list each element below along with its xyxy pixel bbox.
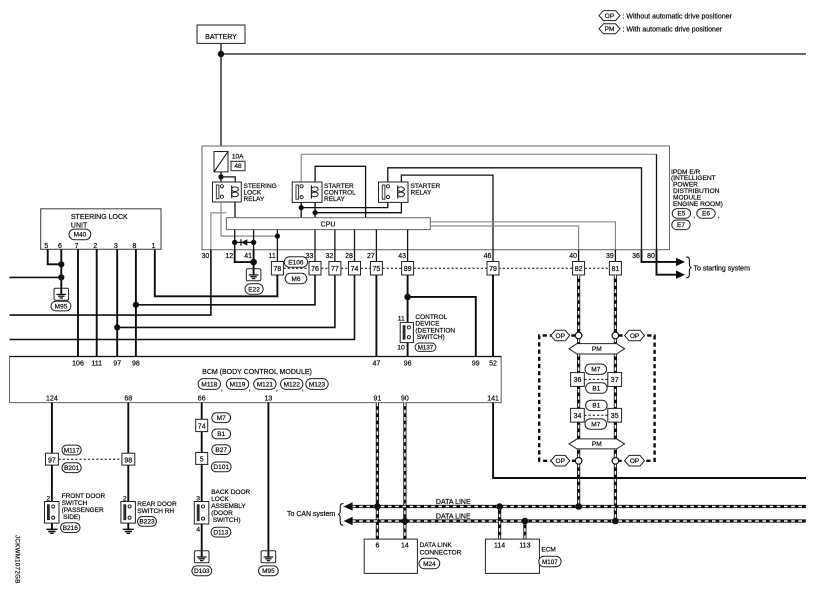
svg-text:D101: D101 <box>213 464 229 471</box>
svg-text:14: 14 <box>401 543 409 550</box>
svg-text:OP: OP <box>556 333 565 340</box>
svg-text:36: 36 <box>632 253 640 260</box>
svg-text:66: 66 <box>198 395 206 402</box>
svg-text:M122: M122 <box>284 381 301 388</box>
svg-text:M95: M95 <box>55 303 68 310</box>
svg-text:96: 96 <box>404 360 412 367</box>
svg-text:2: 2 <box>93 243 97 250</box>
svg-text:106: 106 <box>72 360 84 367</box>
svg-text:OP: OP <box>605 13 614 20</box>
svg-text:4: 4 <box>196 526 200 533</box>
svg-text:B201: B201 <box>64 465 80 472</box>
svg-text:M40: M40 <box>74 232 87 239</box>
svg-text:11: 11 <box>398 315 405 322</box>
svg-text:43: 43 <box>398 253 406 260</box>
svg-text:68: 68 <box>124 395 132 402</box>
svg-text:B1: B1 <box>592 385 600 392</box>
svg-text:M118: M118 <box>201 381 217 388</box>
svg-text:99: 99 <box>472 360 480 367</box>
svg-text:46: 46 <box>484 253 492 260</box>
svg-text:47: 47 <box>373 360 381 367</box>
svg-text:35: 35 <box>611 413 619 420</box>
svg-text:36: 36 <box>574 377 582 384</box>
svg-text:,: , <box>302 386 304 393</box>
svg-text:124: 124 <box>46 395 58 402</box>
svg-text:PM: PM <box>605 26 615 33</box>
svg-text:OP: OP <box>556 458 565 465</box>
svg-text:113: 113 <box>519 543 530 550</box>
svg-text:To starting system: To starting system <box>694 265 751 272</box>
svg-text:M121: M121 <box>257 381 274 388</box>
svg-text:E5: E5 <box>677 211 685 218</box>
svg-text:E106: E106 <box>288 259 304 266</box>
svg-text:74: 74 <box>351 266 359 273</box>
svg-text:STEERING LOCK: STEERING LOCK <box>71 214 128 221</box>
svg-text:REAR DOOR: REAR DOOR <box>137 501 177 508</box>
svg-text:B223: B223 <box>139 519 155 526</box>
svg-text:27: 27 <box>367 253 375 260</box>
svg-text:5: 5 <box>44 243 48 250</box>
svg-text:77: 77 <box>331 266 339 273</box>
svg-text:: Without automatic drive posi: : Without automatic drive positioner <box>623 13 733 20</box>
svg-text:32: 32 <box>326 253 334 260</box>
svg-text:ASSEMBLY: ASSEMBLY <box>211 503 246 510</box>
svg-text:80: 80 <box>647 253 655 260</box>
svg-text:M7: M7 <box>591 421 600 428</box>
svg-text:B1: B1 <box>217 431 225 438</box>
svg-text:6: 6 <box>58 243 62 250</box>
svg-text:LOCK: LOCK <box>211 496 229 503</box>
svg-text:97: 97 <box>48 457 56 464</box>
svg-text:3: 3 <box>196 495 200 502</box>
svg-text:,: , <box>718 213 720 220</box>
svg-text:75: 75 <box>373 266 381 273</box>
svg-text:30: 30 <box>202 253 210 260</box>
svg-text:SIDE): SIDE) <box>63 514 80 521</box>
svg-text:2: 2 <box>46 495 50 502</box>
svg-text:SWITCH): SWITCH) <box>213 517 241 524</box>
svg-text:ECM: ECM <box>541 547 555 554</box>
svg-text:RELAY: RELAY <box>411 190 432 197</box>
svg-text:M123: M123 <box>309 381 326 388</box>
svg-text:CPU: CPU <box>321 221 336 228</box>
svg-text:98: 98 <box>124 457 132 464</box>
svg-text:39: 39 <box>606 253 614 260</box>
svg-text:PM: PM <box>592 346 602 353</box>
svg-text:111: 111 <box>91 360 102 367</box>
svg-text:E7: E7 <box>677 222 685 229</box>
svg-text:M107: M107 <box>542 559 558 566</box>
svg-text:RELAY: RELAY <box>244 196 265 203</box>
svg-text:To CAN system: To CAN system <box>287 511 335 518</box>
svg-text:JCKWM1072GB: JCKWM1072GB <box>13 535 20 584</box>
svg-text:1: 1 <box>151 243 155 250</box>
svg-text:DATA LINK: DATA LINK <box>420 542 453 549</box>
svg-text:98: 98 <box>132 360 140 367</box>
svg-text:BCM (BODY CONTROL MODULE): BCM (BODY CONTROL MODULE) <box>202 369 312 376</box>
svg-text:M119: M119 <box>230 381 246 388</box>
svg-text:81: 81 <box>612 266 620 273</box>
svg-text:141: 141 <box>487 395 499 402</box>
svg-text:E6: E6 <box>702 211 710 218</box>
svg-text:7: 7 <box>75 243 79 250</box>
svg-text:74: 74 <box>198 424 206 431</box>
svg-text:SWITCH RH: SWITCH RH <box>137 508 174 515</box>
svg-text:FRONT DOOR: FRONT DOOR <box>62 493 106 500</box>
svg-text:6: 6 <box>375 543 379 550</box>
svg-text:(PASSENGER: (PASSENGER <box>62 507 104 514</box>
svg-text:89: 89 <box>404 266 412 273</box>
svg-text:2: 2 <box>123 495 127 502</box>
svg-text:DATA LINE: DATA LINE <box>436 499 471 506</box>
svg-text:BATTERY: BATTERY <box>205 34 237 41</box>
svg-text:: With automatic drive positio: : With automatic drive positioner <box>623 27 723 34</box>
svg-text:BACK DOOR: BACK DOOR <box>211 489 250 496</box>
svg-text:E22: E22 <box>248 286 260 293</box>
svg-text:114: 114 <box>494 543 505 550</box>
svg-text:D103: D103 <box>194 568 210 575</box>
svg-text:CONNECTOR: CONNECTOR <box>420 549 462 556</box>
svg-text:DATA LINE: DATA LINE <box>436 513 471 520</box>
svg-text:52: 52 <box>489 360 497 367</box>
svg-text:79: 79 <box>489 266 497 273</box>
svg-text:10A: 10A <box>232 154 244 161</box>
svg-text:,: , <box>249 386 251 393</box>
svg-text:B216: B216 <box>63 525 79 532</box>
svg-text:3: 3 <box>114 243 118 250</box>
svg-text:,: , <box>276 386 278 393</box>
svg-text:28: 28 <box>345 253 353 260</box>
svg-text:PM: PM <box>592 441 602 448</box>
svg-text:34: 34 <box>574 413 582 420</box>
svg-text:78: 78 <box>274 266 282 273</box>
svg-text:76: 76 <box>311 266 319 273</box>
svg-text:12: 12 <box>225 253 233 260</box>
svg-text:8: 8 <box>133 243 137 250</box>
svg-text:SWITCH: SWITCH <box>62 500 88 507</box>
svg-text:M24: M24 <box>423 561 436 568</box>
svg-text:B1: B1 <box>592 403 600 410</box>
svg-text:,: , <box>693 213 695 220</box>
svg-text:90: 90 <box>401 395 409 402</box>
svg-text:48: 48 <box>234 163 242 170</box>
svg-text:M6: M6 <box>291 276 300 283</box>
svg-text:5: 5 <box>200 457 204 464</box>
svg-text:37: 37 <box>611 377 619 384</box>
svg-text:,: , <box>221 386 223 393</box>
svg-text:M7: M7 <box>217 415 226 422</box>
svg-text:M7: M7 <box>591 367 600 374</box>
svg-text:D113: D113 <box>213 529 228 536</box>
svg-text:M137: M137 <box>418 344 434 351</box>
svg-text:OP: OP <box>630 458 639 465</box>
svg-text:10: 10 <box>397 345 405 352</box>
svg-text:M95: M95 <box>262 568 275 575</box>
svg-text:41: 41 <box>244 253 252 260</box>
svg-text:11: 11 <box>269 253 276 260</box>
svg-text:M117: M117 <box>64 447 80 454</box>
svg-text:OP: OP <box>630 333 639 340</box>
svg-text:ENGINE ROOM): ENGINE ROOM) <box>673 201 723 208</box>
svg-text:13: 13 <box>265 395 273 402</box>
svg-text:82: 82 <box>575 266 583 273</box>
svg-text:40: 40 <box>569 253 577 260</box>
svg-text:97: 97 <box>113 360 121 367</box>
svg-text:SWITCH): SWITCH) <box>417 334 445 341</box>
svg-text:B27: B27 <box>215 447 227 454</box>
svg-text:RELAY: RELAY <box>324 196 345 203</box>
svg-text:(DOOR: (DOOR <box>211 510 233 517</box>
svg-text:91: 91 <box>374 395 382 402</box>
